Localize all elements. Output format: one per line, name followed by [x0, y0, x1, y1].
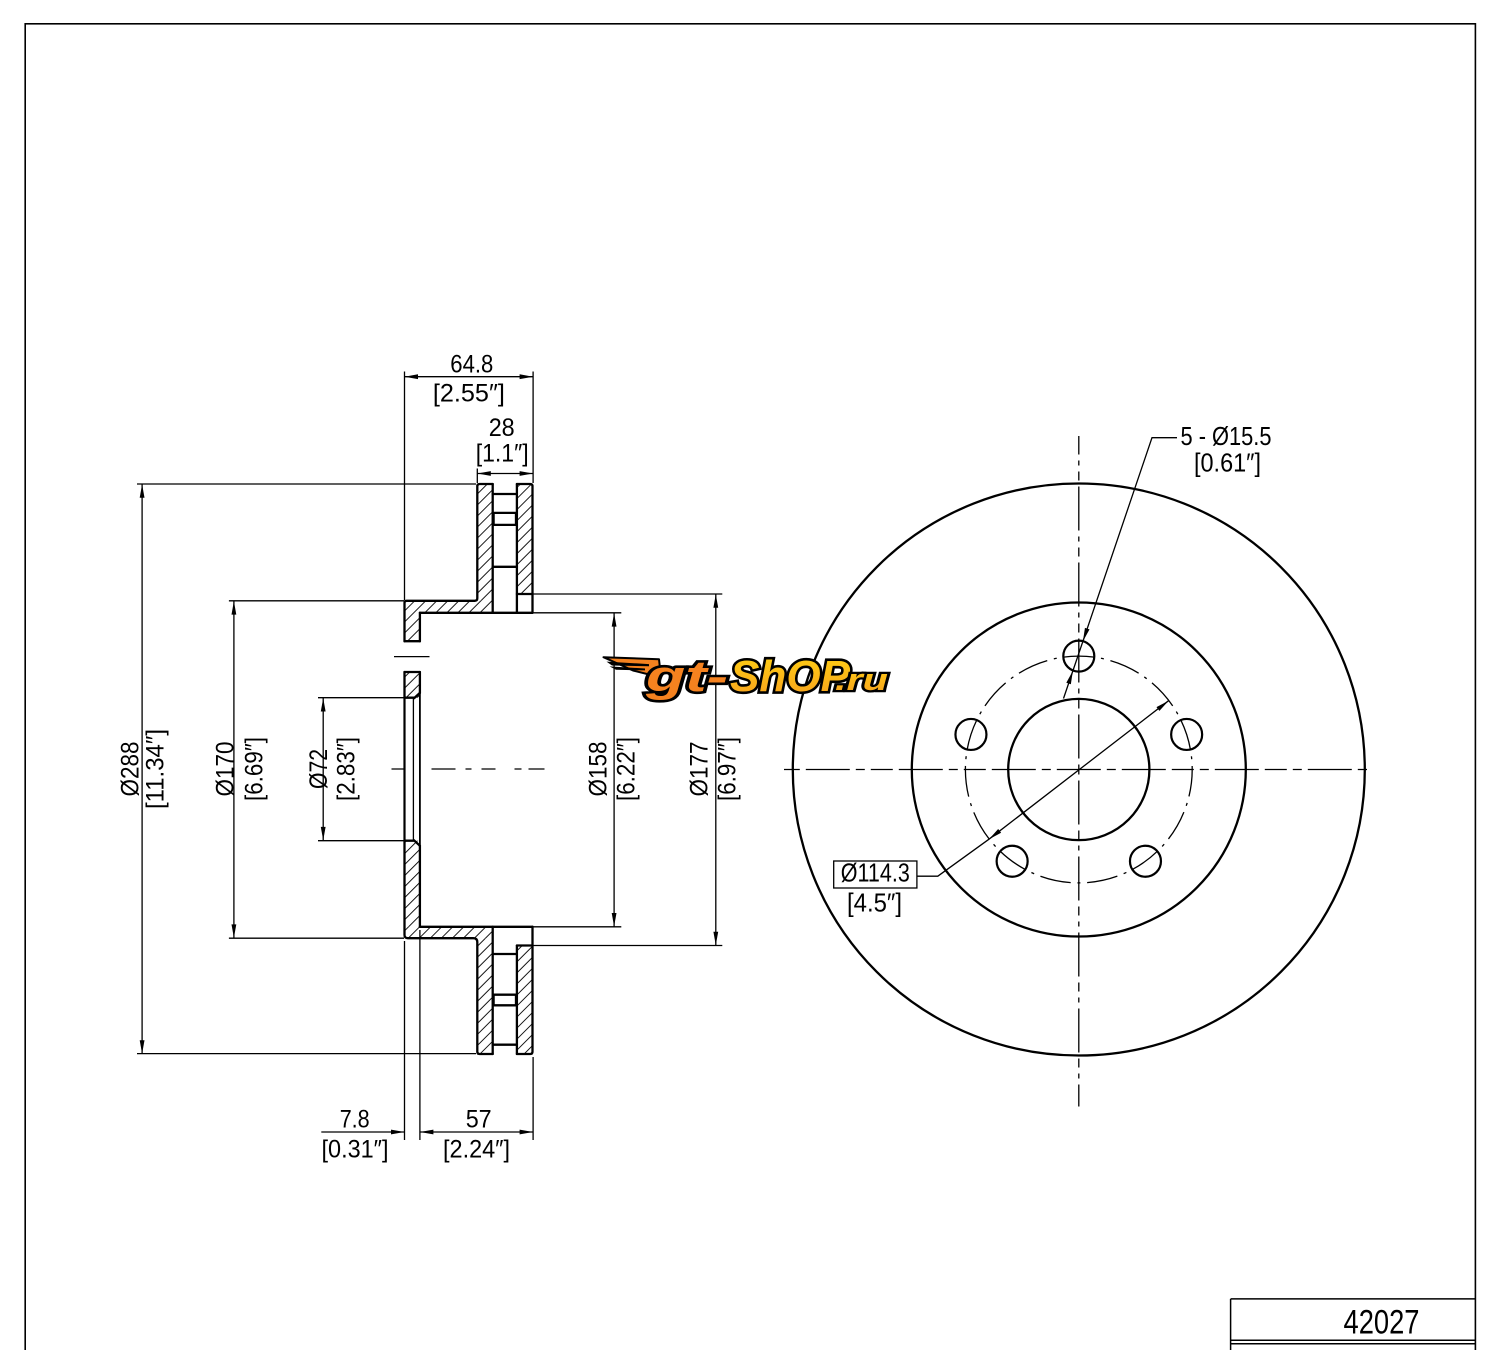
svg-text:[6.22″]: [6.22″] [612, 737, 640, 801]
svg-text:[4.5″]: [4.5″] [847, 888, 902, 918]
dim 7.8 / 57 [321, 1131, 404, 1133]
arrowheads [140, 374, 719, 1134]
right friction plate, bottom half [517, 927, 533, 1054]
dia114.3 label box [834, 861, 917, 888]
dim 28 [476, 469, 478, 484]
svg-text:28: 28 [489, 414, 515, 442]
svg-text:.ru: .ru [835, 662, 888, 697]
svg-text:Ø170: Ø170 [211, 742, 239, 797]
dim 64.8 [404, 372, 406, 601]
right plate top edge (bottom half) [517, 944, 533, 946]
bolt hole upper-right [1171, 719, 1202, 750]
logo speed streak 1 [607, 662, 650, 667]
bolt hole top [1063, 641, 1094, 672]
svg-text:[0.61″]: [0.61″] [1194, 448, 1261, 478]
left plate inner face, top [492, 484, 494, 613]
svg-text:5 - Ø15.5: 5 - Ø15.5 [1181, 421, 1272, 451]
svg-text:[0.31″]: [0.31″] [322, 1136, 389, 1164]
svg-text:[2.24″]: [2.24″] [443, 1136, 510, 1164]
dim dia288 [141, 484, 143, 1054]
svg-text:64.8: 64.8 [450, 351, 493, 379]
svg-text:Ø158: Ø158 [584, 742, 612, 797]
hat web top edge, bottom half [420, 926, 533, 928]
left friction plate, bottom half, with hat web and flange left face [405, 841, 493, 1054]
bore bottom edge and chamfer [405, 840, 420, 845]
right friction plate, top half [517, 484, 533, 613]
right plate bottom edge (top half) [517, 593, 533, 595]
vane edges, top channel [493, 493, 517, 495]
svg-text:42027: 42027 [1344, 1304, 1420, 1342]
outer diameter circle [793, 484, 1365, 1056]
bolt circle diameter leader [917, 701, 1169, 877]
flange right face, top [419, 613, 421, 693]
bolt hole lower-right [1130, 846, 1161, 877]
vertical centerline [1078, 436, 1080, 770]
thin lines through bore opening [405, 693, 420, 846]
horizontal centerline [784, 769, 1079, 771]
dim dia170 [233, 601, 235, 938]
svg-text:7.8: 7.8 [340, 1106, 370, 1134]
dim dia158 [613, 613, 615, 927]
bolt hole upper-left [955, 719, 986, 750]
hat outer circle [912, 603, 1246, 937]
svg-text:[6.69″]: [6.69″] [241, 737, 269, 801]
dimension texts with halos [117, 351, 742, 1164]
svg-text:gt-: gt- [645, 652, 728, 701]
center bore circle [1008, 699, 1149, 840]
bolt hole lower-left [997, 846, 1028, 877]
hatch fills [405, 484, 533, 1054]
bore top edge and chamfer [405, 693, 420, 698]
svg-text:[1.1″]: [1.1″] [476, 440, 529, 468]
svg-text:[2.55″]: [2.55″] [433, 380, 505, 408]
title block [1231, 1299, 1476, 1350]
bolt circle (dash-dot) [965, 656, 1192, 883]
vane edges, bottom channel [493, 953, 517, 955]
svg-text:57: 57 [466, 1106, 492, 1134]
svg-text:Ø288: Ø288 [117, 742, 145, 797]
flange left face between bolt hole and bore [403, 672, 405, 698]
svg-text:[2.83″]: [2.83″] [333, 737, 361, 801]
dim dia177 [715, 594, 717, 946]
bolt hole edges [405, 641, 420, 672]
left plate inner face, bottom [492, 927, 494, 1054]
bolt hole axis tick [394, 656, 430, 658]
svg-text:ShOP: ShOP [730, 652, 851, 701]
section axis centerline [392, 768, 546, 770]
svg-text:Ø72: Ø72 [305, 749, 333, 789]
svg-text:[11.34″]: [11.34″] [142, 729, 170, 809]
dim dia72 [322, 698, 324, 841]
svg-text:[6.97″]: [6.97″] [713, 737, 741, 801]
left friction plate, top half, with hat web and flange left face [405, 484, 493, 641]
svg-text:Ø114.3: Ø114.3 [841, 858, 910, 888]
dimension and extension lines [137, 372, 722, 1141]
logo speed streak 2 [610, 666, 646, 670]
bolt hole leader 5-dia15.5 [1064, 438, 1178, 699]
hat web bottom edge, top half [420, 612, 533, 614]
flange right face, bottom [419, 846, 421, 927]
logo orange swoosh [604, 657, 662, 677]
svg-text:Ø177: Ø177 [685, 742, 713, 797]
thick part outlines [405, 484, 533, 1054]
